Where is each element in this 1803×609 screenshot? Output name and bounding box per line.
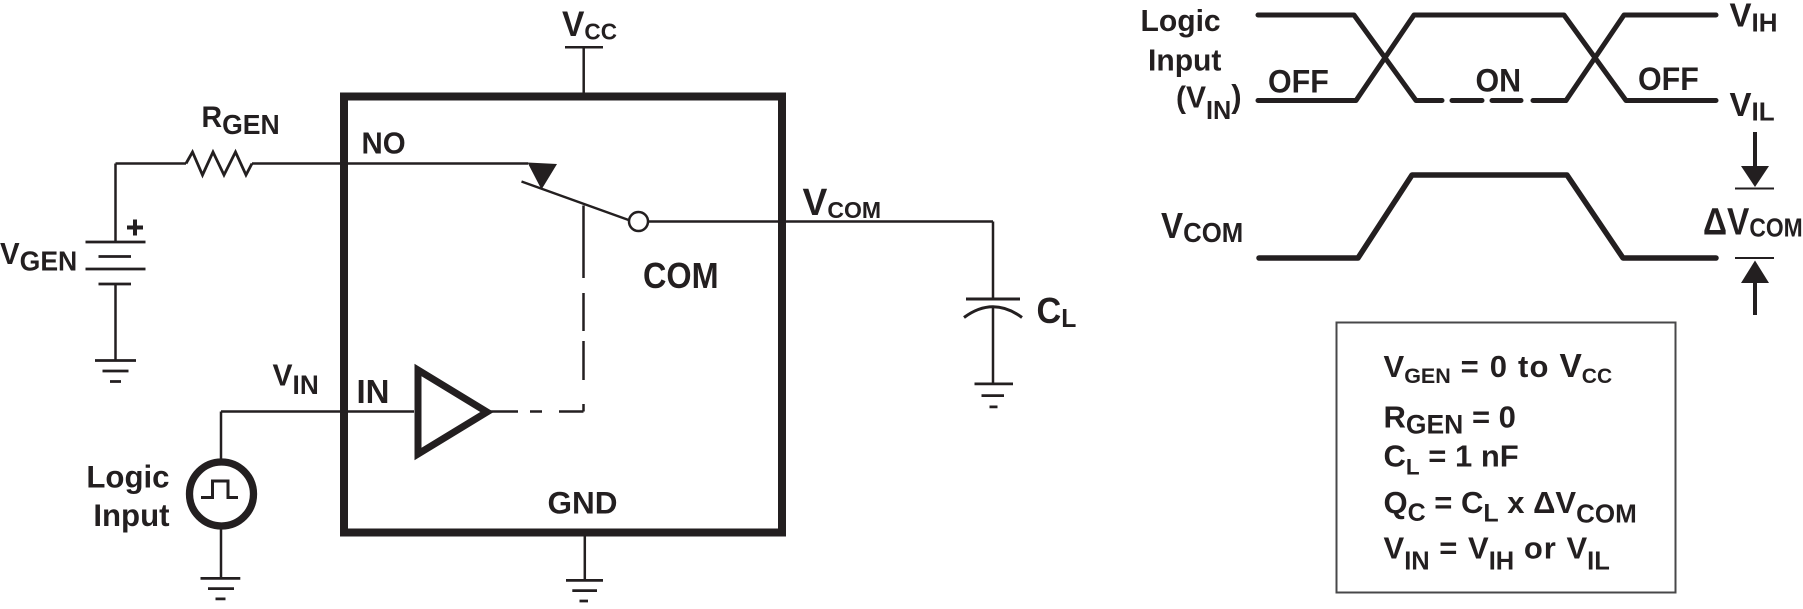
- svg-text:VIL: VIL: [1730, 86, 1775, 127]
- wire VCC stem: [582, 47, 585, 93]
- label IN: [357, 373, 390, 410]
- waveform logic input high-low solid: [1258, 15, 1716, 101]
- svg-text:(VIN): (VIN): [1176, 78, 1242, 125]
- svg-text:VCOM: VCOM: [803, 181, 882, 223]
- note line 1: [1384, 348, 1613, 388]
- buffer U2: [418, 370, 487, 454]
- tick lower: [1735, 257, 1774, 259]
- svg-text:VIN: VIN: [273, 358, 319, 400]
- label VIL: [1730, 86, 1775, 127]
- label VIN: [273, 358, 319, 400]
- svg-text:VCC: VCC: [562, 5, 617, 44]
- voltage source VGEN plus sign: [127, 220, 143, 236]
- svg-text:GND: GND: [548, 485, 618, 521]
- svg-text:OFF: OFF: [1638, 61, 1699, 97]
- label OFF right: [1638, 61, 1699, 97]
- svg-text:VIN = VIH or VIL: VIN = VIH or VIL: [1384, 531, 1610, 576]
- wire VIN horizontal: [221, 410, 414, 413]
- label Logic Input (VIN): [1141, 4, 1221, 39]
- svg-text:VIH: VIH: [1730, 0, 1778, 37]
- voltage source VGEN battery: [86, 242, 146, 284]
- note box: [1337, 323, 1676, 593]
- wire COM to capacitor: [992, 222, 995, 298]
- note line 3: [1384, 439, 1519, 480]
- ground under CL: [975, 384, 1014, 407]
- power VCC bar: [565, 46, 603, 49]
- label NO: [362, 127, 406, 161]
- svg-text:Input: Input: [93, 498, 170, 533]
- note line 2: [1384, 399, 1516, 439]
- label GND: [548, 485, 618, 521]
- svg-text:VGEN = 0 to VCC: VGEN = 0 to VCC: [1384, 348, 1613, 388]
- ground under box: [566, 580, 603, 601]
- capacitor CL: [966, 298, 1020, 301]
- svg-text:CL: CL: [1037, 291, 1077, 333]
- wire capacitor to ground: [992, 308, 995, 384]
- switch S1 pole circle: [629, 212, 648, 231]
- arrow down dVCOM: [1753, 132, 1757, 170]
- label dVCOM: [1703, 201, 1803, 243]
- dashed control line vertical: [582, 206, 585, 412]
- label RGEN: [202, 101, 280, 140]
- switch S1 lever: [522, 182, 631, 221]
- svg-text:Logic: Logic: [1141, 4, 1221, 39]
- svg-text:VGEN: VGEN: [0, 237, 77, 276]
- label VGEN: [0, 237, 77, 276]
- wire COM output: [648, 220, 993, 223]
- wire NO left segment: [116, 162, 187, 165]
- note line 5: [1384, 531, 1610, 576]
- svg-text:COM: COM: [643, 256, 719, 296]
- logic input source circle: [190, 462, 254, 526]
- ground under logic source: [201, 578, 241, 599]
- svg-text:NO: NO: [362, 127, 406, 161]
- svg-text:Input: Input: [1148, 43, 1221, 78]
- label CL: [1037, 291, 1077, 333]
- svg-text:CL = 1 nF: CL = 1 nF: [1384, 439, 1519, 480]
- svg-text:IN: IN: [357, 373, 390, 410]
- wire GND stem: [584, 537, 587, 580]
- svg-text:Logic: Logic: [86, 459, 169, 494]
- label VIH: [1730, 0, 1778, 37]
- svg-text:VCOM: VCOM: [1161, 207, 1243, 248]
- label VCC: [562, 5, 617, 44]
- label VCOM waveform: [1161, 207, 1243, 248]
- label ON: [1476, 63, 1522, 99]
- logic input source pulse symbol: [201, 481, 238, 498]
- waveform VCOM: [1259, 175, 1716, 258]
- label VCOM: [803, 181, 882, 223]
- label Logic Input: [86, 459, 169, 494]
- note line 4: [1384, 485, 1637, 529]
- wire resistor to switch: [252, 162, 528, 165]
- wire logic source to ground: [220, 528, 223, 578]
- label OFF left: [1268, 64, 1329, 100]
- switch IC box U1: [344, 97, 782, 533]
- wire buffer output dash-dot: [490, 410, 584, 413]
- svg-text:RGEN = 0: RGEN = 0: [1384, 399, 1516, 439]
- switch S1 arrowhead: [528, 163, 558, 190]
- svg-text:OFF: OFF: [1268, 64, 1329, 100]
- wire logic source to VIN: [220, 412, 223, 460]
- svg-text:ΔVCOM: ΔVCOM: [1703, 201, 1803, 243]
- svg-text:QC = CL x ΔVCOM: QC = CL x ΔVCOM: [1384, 485, 1637, 529]
- tick upper: [1735, 188, 1774, 190]
- wire VGEN top: [114, 164, 117, 242]
- ground under VGEN: [95, 361, 136, 382]
- svg-text:ON: ON: [1476, 63, 1522, 99]
- resistor RGEN: [186, 152, 252, 175]
- label COM: [643, 256, 719, 296]
- wire VGEN bottom: [114, 284, 117, 360]
- arrow up dVCOM: [1741, 261, 1769, 284]
- waveform logic input ON dashes: [1452, 98, 1566, 103]
- svg-text:RGEN: RGEN: [202, 101, 280, 140]
